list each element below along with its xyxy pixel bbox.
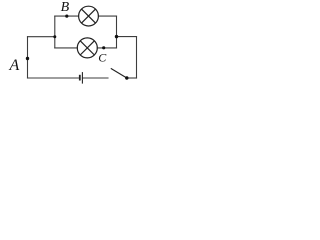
wire top branch right: [98, 15, 116, 17]
battery cell: [80, 72, 83, 84]
wire bottom middle segment (battery to switch): [82, 77, 108, 79]
wire bottom right segment (switch to corner): [127, 77, 137, 79]
node dot on left wire (A): [26, 57, 29, 60]
wire C branch right: [97, 47, 116, 49]
lamp B (circle with X): [79, 6, 99, 26]
node dot left tee junction: [53, 35, 56, 38]
node dot on C branch: [102, 46, 105, 49]
wire left feed: [28, 36, 55, 38]
wire bottom left segment: [28, 77, 79, 79]
node dot right tee junction: [115, 35, 118, 38]
wire top branch left: [55, 15, 79, 17]
node dot on top branch (B): [65, 15, 68, 18]
switch blade: [111, 68, 127, 78]
wire right outer vertical: [136, 37, 138, 78]
svg-text:A: A: [9, 57, 20, 74]
node dot switch pivot: [125, 76, 128, 79]
lamp C (circle with X): [77, 38, 97, 58]
wire right feed: [117, 36, 137, 38]
wire C branch left: [55, 47, 78, 49]
wire right connector vertical: [116, 16, 118, 48]
svg-text:C: C: [98, 50, 107, 64]
wire left connector vertical: [54, 16, 56, 48]
svg-text:B: B: [61, 0, 70, 15]
wire left outer vertical: [27, 37, 29, 78]
